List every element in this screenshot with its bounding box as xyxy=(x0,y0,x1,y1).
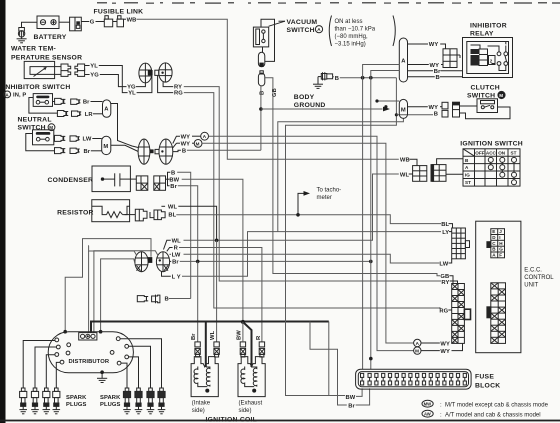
svg-text:RG: RG xyxy=(439,308,448,314)
wire WY(A) bus down to WY circle M at ECC xyxy=(209,136,414,350)
svg-text:M: M xyxy=(499,93,503,98)
clutch connector stack 2 xyxy=(453,102,460,117)
wire B to clutch connector xyxy=(396,114,433,116)
condenser xyxy=(92,166,130,192)
wire Br to fuse xyxy=(356,388,370,405)
ground (distributor) xyxy=(97,373,107,383)
spark plug 4 xyxy=(53,388,61,414)
svg-text:VACUUM: VACUUM xyxy=(287,19,318,26)
junction B vacuum xyxy=(259,107,263,111)
svg-text:R: R xyxy=(256,335,262,340)
svg-text:side): side) xyxy=(192,408,205,414)
wire R stub xyxy=(167,248,173,252)
svg-text:FUSIBLE LINK: FUSIBLE LINK xyxy=(94,9,144,16)
ECC harness connector upper xyxy=(452,228,470,259)
svg-text:FUSE: FUSE xyxy=(475,374,494,381)
svg-text:YL: YL xyxy=(90,64,98,70)
wire sensor to connector xyxy=(55,66,61,68)
power transistor oval 1 xyxy=(135,252,152,272)
wire neutral switch to connector xyxy=(53,138,56,140)
nested wire L4 xyxy=(101,259,136,332)
wire GB stub xyxy=(449,276,453,284)
svg-text:B: B xyxy=(182,148,186,154)
ignition coil intake xyxy=(191,357,218,397)
body ground connector xyxy=(321,72,332,80)
ignition unit B connector 2 xyxy=(152,295,160,304)
wire LY stub xyxy=(162,271,171,276)
wire B branch to M connector arrow xyxy=(261,108,383,110)
svg-text:ACC: ACC xyxy=(486,151,497,156)
svg-text:MW: MW xyxy=(424,402,431,407)
junction Br xyxy=(196,260,200,264)
svg-text:meter: meter xyxy=(317,195,332,201)
junction WL coil xyxy=(215,239,219,243)
spark plug 3 xyxy=(43,388,51,414)
distributor terminals left xyxy=(55,338,71,364)
svg-text:WY: WY xyxy=(181,141,191,147)
wire LW to ECC connector xyxy=(449,259,452,263)
ignition harness connector 1 xyxy=(413,166,427,182)
node WB xyxy=(124,18,127,20)
wire clutch B bus down and across xyxy=(286,78,397,396)
wire oval to WY A xyxy=(173,136,180,143)
neutral switch connector pair (Br row) xyxy=(55,148,80,154)
wire WL to connector xyxy=(409,173,413,175)
ground (body) xyxy=(313,77,323,89)
ECC inner connector upper letters xyxy=(492,229,503,257)
wire RG bus to ECC xyxy=(184,93,441,308)
condenser connector 1 xyxy=(130,176,147,190)
wire fuse bus 1 to A capsule xyxy=(363,65,400,370)
wire BL to ECC connector xyxy=(449,224,453,228)
wire LW stub xyxy=(170,253,171,255)
wire distributor to plug 1 xyxy=(23,341,55,389)
clutch switch xyxy=(477,99,498,113)
page left black border xyxy=(0,0,6,423)
svg-text:RESISTOR: RESISTOR xyxy=(57,210,94,217)
intake coil connector WL xyxy=(214,342,219,357)
wire connector 2 to table row B xyxy=(437,159,463,165)
svg-text:GROUND: GROUND xyxy=(294,102,326,109)
svg-text:IG: IG xyxy=(465,173,470,178)
wire WY(M) bus down to WY circle A at ECC xyxy=(202,143,414,343)
svg-text:R: R xyxy=(174,246,179,252)
svg-text:(−80 mmHg,: (−80 mmHg, xyxy=(335,34,369,40)
distributor terminals right xyxy=(110,337,128,365)
battery connector xyxy=(70,17,82,31)
svg-text:Br: Br xyxy=(83,100,90,106)
wire distributor to plug 8 xyxy=(120,339,162,388)
svg-text:OFF: OFF xyxy=(475,151,484,156)
svg-text:A: A xyxy=(104,107,109,113)
svg-text:E.C.C.: E.C.C. xyxy=(524,268,542,274)
svg-text:SWITCH: SWITCH xyxy=(287,27,315,34)
svg-text:CONTROL: CONTROL xyxy=(524,275,554,281)
svg-text:AW: AW xyxy=(424,412,431,417)
junction clutch B xyxy=(395,113,398,116)
wire B down to ignition unit B xyxy=(177,172,191,243)
wire A capsule Br xyxy=(408,70,434,72)
inhibitor switch xyxy=(33,94,52,107)
wire BL bus to ECC xyxy=(176,215,441,224)
spark plug 8 xyxy=(158,388,166,414)
distributor cap connector xyxy=(79,333,97,340)
svg-text:PLUGS: PLUGS xyxy=(100,402,121,408)
svg-text:ST: ST xyxy=(465,180,471,185)
ground (battery) xyxy=(17,37,27,43)
svg-text:: M/T model except cab & chas: : M/T model except cab & chassis mode xyxy=(440,403,549,409)
svg-text:(Exhaust: (Exhaust xyxy=(239,401,263,407)
wire WY M to connector xyxy=(421,350,440,352)
svg-text:UNIT: UNIT xyxy=(524,282,538,288)
clutch connector stack 1 xyxy=(442,102,448,117)
svg-text:WL: WL xyxy=(210,330,216,340)
wire distributor to plug 2 xyxy=(35,347,56,388)
svg-text:RY: RY xyxy=(441,280,449,286)
junction distributor top left xyxy=(63,330,67,334)
node YG xyxy=(85,74,90,76)
junction B fuse feed 2 xyxy=(369,76,373,80)
svg-text:B: B xyxy=(436,75,440,81)
wire WB to connector xyxy=(410,159,418,165)
svg-text:−3.15 inHg): −3.15 inHg) xyxy=(335,42,366,48)
wire M capsule to clutch WY xyxy=(408,106,428,108)
vacuum switch connector capsule 1 xyxy=(258,47,264,67)
wire M capsule bottom bus to LY column xyxy=(278,118,404,231)
wire RG from oval tab xyxy=(158,76,174,93)
ECC inner connector upper xyxy=(487,229,505,258)
inhibitor switch connector pair (LR row) xyxy=(57,111,81,117)
svg-text:SPARK: SPARK xyxy=(66,395,87,401)
svg-text:Br: Br xyxy=(434,69,441,75)
wire LY bus to ECC xyxy=(182,232,441,277)
svg-text:WY: WY xyxy=(429,42,439,48)
connector A capsule xyxy=(103,100,111,117)
svg-text:J: J xyxy=(499,229,502,234)
junction distributor top right xyxy=(99,330,103,334)
svg-text:WY: WY xyxy=(440,349,450,355)
wire RY from oval xyxy=(163,82,173,87)
wire inhibitor switch to connector xyxy=(53,101,55,103)
wire RY stub xyxy=(450,281,458,284)
svg-text:M: M xyxy=(401,107,406,113)
wire thick drop to exhaust coil xyxy=(244,323,252,368)
svg-text:INHIBITOR: INHIBITOR xyxy=(470,22,507,29)
svg-text:ON at less: ON at less xyxy=(335,19,363,25)
oval connector (WY/B left) xyxy=(138,139,154,164)
svg-text:YG: YG xyxy=(90,73,99,79)
wire WL stub xyxy=(164,240,171,249)
svg-text:Br: Br xyxy=(348,403,355,409)
top edge scan dashes xyxy=(97,2,560,4)
svg-text:F: F xyxy=(499,252,502,257)
svg-text:BATTERY: BATTERY xyxy=(34,34,67,41)
svg-text:CLUTCH: CLUTCH xyxy=(471,85,500,92)
fusible link 2 xyxy=(117,16,124,27)
svg-text:RG: RG xyxy=(174,91,183,97)
svg-text:Br: Br xyxy=(170,184,177,190)
svg-text:WL: WL xyxy=(400,172,410,178)
clutch switch label xyxy=(467,85,505,100)
wire RG stub xyxy=(439,307,441,309)
oval connector (RY/RG) xyxy=(155,63,172,82)
water temp sensor connector pair 2 xyxy=(75,64,85,76)
svg-text:G: G xyxy=(499,247,503,252)
ignition harness connector 2 xyxy=(431,165,446,182)
nested wire L3 xyxy=(94,251,158,333)
page bottom rule xyxy=(0,420,560,422)
svg-text:Br: Br xyxy=(172,260,179,266)
ignition unit B connector 1 xyxy=(137,296,148,302)
wire fuse bus 2 to A capsule xyxy=(371,71,400,370)
svg-text:WY: WY xyxy=(429,105,439,111)
wire A capsule WY mid xyxy=(408,64,429,66)
wire distributor to plug 3 xyxy=(46,355,55,388)
fusible link 1 xyxy=(104,16,117,27)
oval connector (water temp, YG/YL) xyxy=(139,63,153,83)
spark plug 7 xyxy=(147,388,155,414)
svg-text:IGNITION COIL: IGNITION COIL xyxy=(206,417,258,423)
node YL xyxy=(85,65,90,67)
svg-text:INHIBITOR SWITCH: INHIBITOR SWITCH xyxy=(3,84,70,91)
water temperature sensor xyxy=(24,61,54,78)
svg-text:DISTRIBUTOR: DISTRIBUTOR xyxy=(69,359,110,365)
battery ground connector xyxy=(18,28,24,38)
svg-text:WL: WL xyxy=(168,205,178,211)
svg-text:Br: Br xyxy=(191,333,197,340)
wire vacuum switch loop xyxy=(261,19,275,61)
svg-text:BW: BW xyxy=(346,395,356,401)
svg-text:: A/T model and cab & chassis: : A/T model and cab & chassis model xyxy=(440,412,541,418)
wire distributor to plug 5 xyxy=(121,363,127,388)
svg-text:B: B xyxy=(335,76,339,82)
exhaust coil connector BW xyxy=(240,342,245,357)
wire LR to connector A xyxy=(93,113,103,115)
wire LY to ECC connector xyxy=(449,231,452,233)
svg-text:M: M xyxy=(196,141,200,146)
fuse block xyxy=(356,369,472,389)
power transistor oval 2 xyxy=(156,252,169,272)
wire WL down to intake coil xyxy=(216,240,218,342)
junction B fuse feed 1 xyxy=(361,76,365,80)
wire Br stub xyxy=(170,260,172,262)
svg-text:I: I xyxy=(499,235,500,240)
resistor connector 1 xyxy=(135,209,147,221)
wire Br fuse link xyxy=(310,322,347,406)
connector M capsule xyxy=(102,136,111,154)
wire YG to oval connector xyxy=(136,83,146,87)
wire connector 2 to table row IG xyxy=(446,173,463,175)
wire YL down xyxy=(99,66,128,93)
svg-text:BW: BW xyxy=(237,330,243,340)
wire Br to connector A xyxy=(91,101,103,103)
svg-text:ON: ON xyxy=(498,151,506,156)
wire M capsule left feeds xyxy=(377,100,399,102)
wire LW bus to ECC xyxy=(184,254,440,263)
svg-text:BLOCK: BLOCK xyxy=(475,382,500,389)
wire BW connector from junction xyxy=(242,322,244,342)
spark plug 1 xyxy=(19,388,27,414)
svg-text:2: 2 xyxy=(490,59,493,64)
svg-text:B: B xyxy=(165,297,169,303)
wire battery positive to connector xyxy=(59,21,70,23)
wire Br down to intake coil xyxy=(197,261,199,342)
wire Br to connector M xyxy=(91,150,102,152)
wire GB down to ECC xyxy=(265,78,440,276)
spark plug 6 xyxy=(135,388,143,414)
svg-text:WY: WY xyxy=(181,134,191,140)
wire inhibitor switch left loop to LR row xyxy=(29,98,58,114)
inhibitor switch connector pair (Br row) xyxy=(55,98,81,104)
wire to tachometer arrow xyxy=(298,193,304,214)
inhibitor switch sublabel A IN P xyxy=(4,91,27,99)
svg-text:IGNITION SWITCH: IGNITION SWITCH xyxy=(460,140,523,147)
wire neutral switch left loop xyxy=(26,134,55,151)
fuse elements xyxy=(361,373,467,385)
ignition switch table headers xyxy=(465,151,517,186)
svg-text:CONDENSER: CONDENSER xyxy=(48,177,94,184)
wire B row to vacuum B bus xyxy=(173,150,181,151)
wire LW to connector M xyxy=(92,138,101,140)
svg-text:RELAY: RELAY xyxy=(470,30,494,37)
wire WY A to connector xyxy=(421,342,440,344)
model marker circle A (WY ECC) xyxy=(414,339,421,346)
spark plug 2 xyxy=(31,388,39,414)
svg-text:(Intake: (Intake xyxy=(192,401,211,407)
svg-text:WL: WL xyxy=(172,238,182,244)
svg-text:WB: WB xyxy=(400,158,410,164)
battery xyxy=(37,16,59,29)
resistor connector 2 xyxy=(150,206,165,219)
svg-text:M: M xyxy=(103,144,108,150)
svg-text:BODY: BODY xyxy=(294,94,315,101)
junction M feed xyxy=(384,105,387,108)
distributor ground junction xyxy=(100,370,104,374)
wire condenser fan to labels xyxy=(166,178,170,180)
wire YL to oval connector tab xyxy=(137,75,152,92)
inhibitor relay connector xyxy=(443,49,460,68)
svg-text:LW: LW xyxy=(172,252,181,258)
vacuum switch connector capsule 2 xyxy=(258,71,264,86)
inhibitor relay xyxy=(463,38,513,78)
ECC control unit box xyxy=(476,221,521,353)
vacuum switch label xyxy=(269,19,323,34)
nested wire L1 oval to distributor xyxy=(65,239,151,332)
model marker circle A xyxy=(192,132,209,140)
svg-text:A: A xyxy=(401,59,406,65)
wire B to bus xyxy=(169,298,191,300)
svg-text:BL: BL xyxy=(168,213,176,219)
oval connector (WY/B right) xyxy=(155,139,173,164)
legend marker MW xyxy=(422,400,433,407)
wire BW drop to fuse area xyxy=(328,322,330,396)
svg-text:B: B xyxy=(171,171,175,177)
wire connector to fusible link, node G xyxy=(81,21,89,23)
wire clutch switch return loop xyxy=(460,107,511,119)
svg-text:M: M xyxy=(415,349,419,354)
resistor xyxy=(92,200,136,222)
wire WB bus: right then down to WB connector row xyxy=(137,19,399,159)
wire YG down xyxy=(100,75,127,87)
svg-text:LW: LW xyxy=(83,137,92,143)
svg-text:BW: BW xyxy=(169,177,179,183)
wire connector M to lower oval xyxy=(111,145,138,151)
svg-text:ST: ST xyxy=(511,151,517,156)
svg-text:NEUTRAL: NEUTRAL xyxy=(18,117,52,124)
exhaust coil connector R xyxy=(259,342,264,357)
svg-text:L Y: L Y xyxy=(172,274,181,280)
svg-text:BL: BL xyxy=(441,222,449,228)
svg-text:Br: Br xyxy=(84,149,91,155)
vacuum note parentheses xyxy=(329,16,331,47)
connector M capsule (clutch circuit) xyxy=(399,99,407,118)
junction tachometer xyxy=(296,213,300,217)
svg-text:YL: YL xyxy=(128,91,136,97)
svg-text:LW: LW xyxy=(439,261,448,267)
wire RY bus to ECC xyxy=(184,87,441,281)
neutral switch connector pair (LW row) xyxy=(55,135,80,141)
wire connector A to lower oval xyxy=(111,104,138,148)
wire thick drop to intake coil xyxy=(205,322,207,368)
wire R to exhaust coil xyxy=(179,248,262,343)
intake coil connector Br xyxy=(195,342,200,357)
wire BW junction xyxy=(329,395,345,397)
wire WL bus xyxy=(184,174,399,240)
connector A capsule (vacuum circuit) xyxy=(399,38,407,82)
svg-text:PERATURE SENSOR: PERATURE SENSOR xyxy=(11,55,82,62)
wire distributor to plug 4 xyxy=(56,362,60,388)
ECC inner connector lower xyxy=(487,283,506,344)
wire distributor to plug 7 xyxy=(129,346,151,388)
wire WL resistor to WL bus xyxy=(178,206,216,240)
svg-text:SPARK: SPARK xyxy=(100,395,121,401)
ECC harness connector lower xyxy=(452,284,471,344)
wire A capsule B xyxy=(408,76,435,78)
condenser connector 2 xyxy=(154,176,166,190)
model marker circle M (WY ECC) xyxy=(414,347,421,354)
svg-text:IN, P: IN, P xyxy=(13,93,26,99)
ignition coil exhaust xyxy=(238,357,265,397)
neutral switch xyxy=(33,130,54,145)
wire clutch connector to switch xyxy=(460,105,478,107)
svg-text:WY: WY xyxy=(440,341,450,347)
junction BW exhaust xyxy=(241,320,245,324)
vacuum switch xyxy=(253,27,268,47)
wire BW to fuse xyxy=(356,388,362,396)
svg-text:E: E xyxy=(492,229,495,234)
junction fuse top xyxy=(369,357,373,361)
svg-text:LR: LR xyxy=(85,112,94,118)
wire A capsule to WY top xyxy=(408,43,429,45)
distributor xyxy=(48,332,133,373)
nested wire L2 xyxy=(89,246,137,256)
svg-text:B: B xyxy=(434,112,438,118)
model marker circle M xyxy=(173,140,202,148)
wire Br bus xyxy=(180,260,371,262)
svg-text:G: G xyxy=(90,20,95,26)
ignition switch table contacts xyxy=(488,157,516,184)
neutral switch sublabel xyxy=(18,124,55,132)
water temp sensor connector pair 1 xyxy=(61,64,71,76)
legend marker AW xyxy=(422,410,433,417)
wire B body bus xyxy=(333,76,334,78)
wire distributor to plug 6 xyxy=(129,357,139,388)
wire primary thick from distributor to coils xyxy=(91,322,329,333)
svg-text:side): side) xyxy=(239,408,252,414)
svg-text:than −10.7 kPa: than −10.7 kPa xyxy=(335,27,376,33)
wire B vacuum down xyxy=(260,86,262,150)
svg-text:WB: WB xyxy=(127,17,137,23)
